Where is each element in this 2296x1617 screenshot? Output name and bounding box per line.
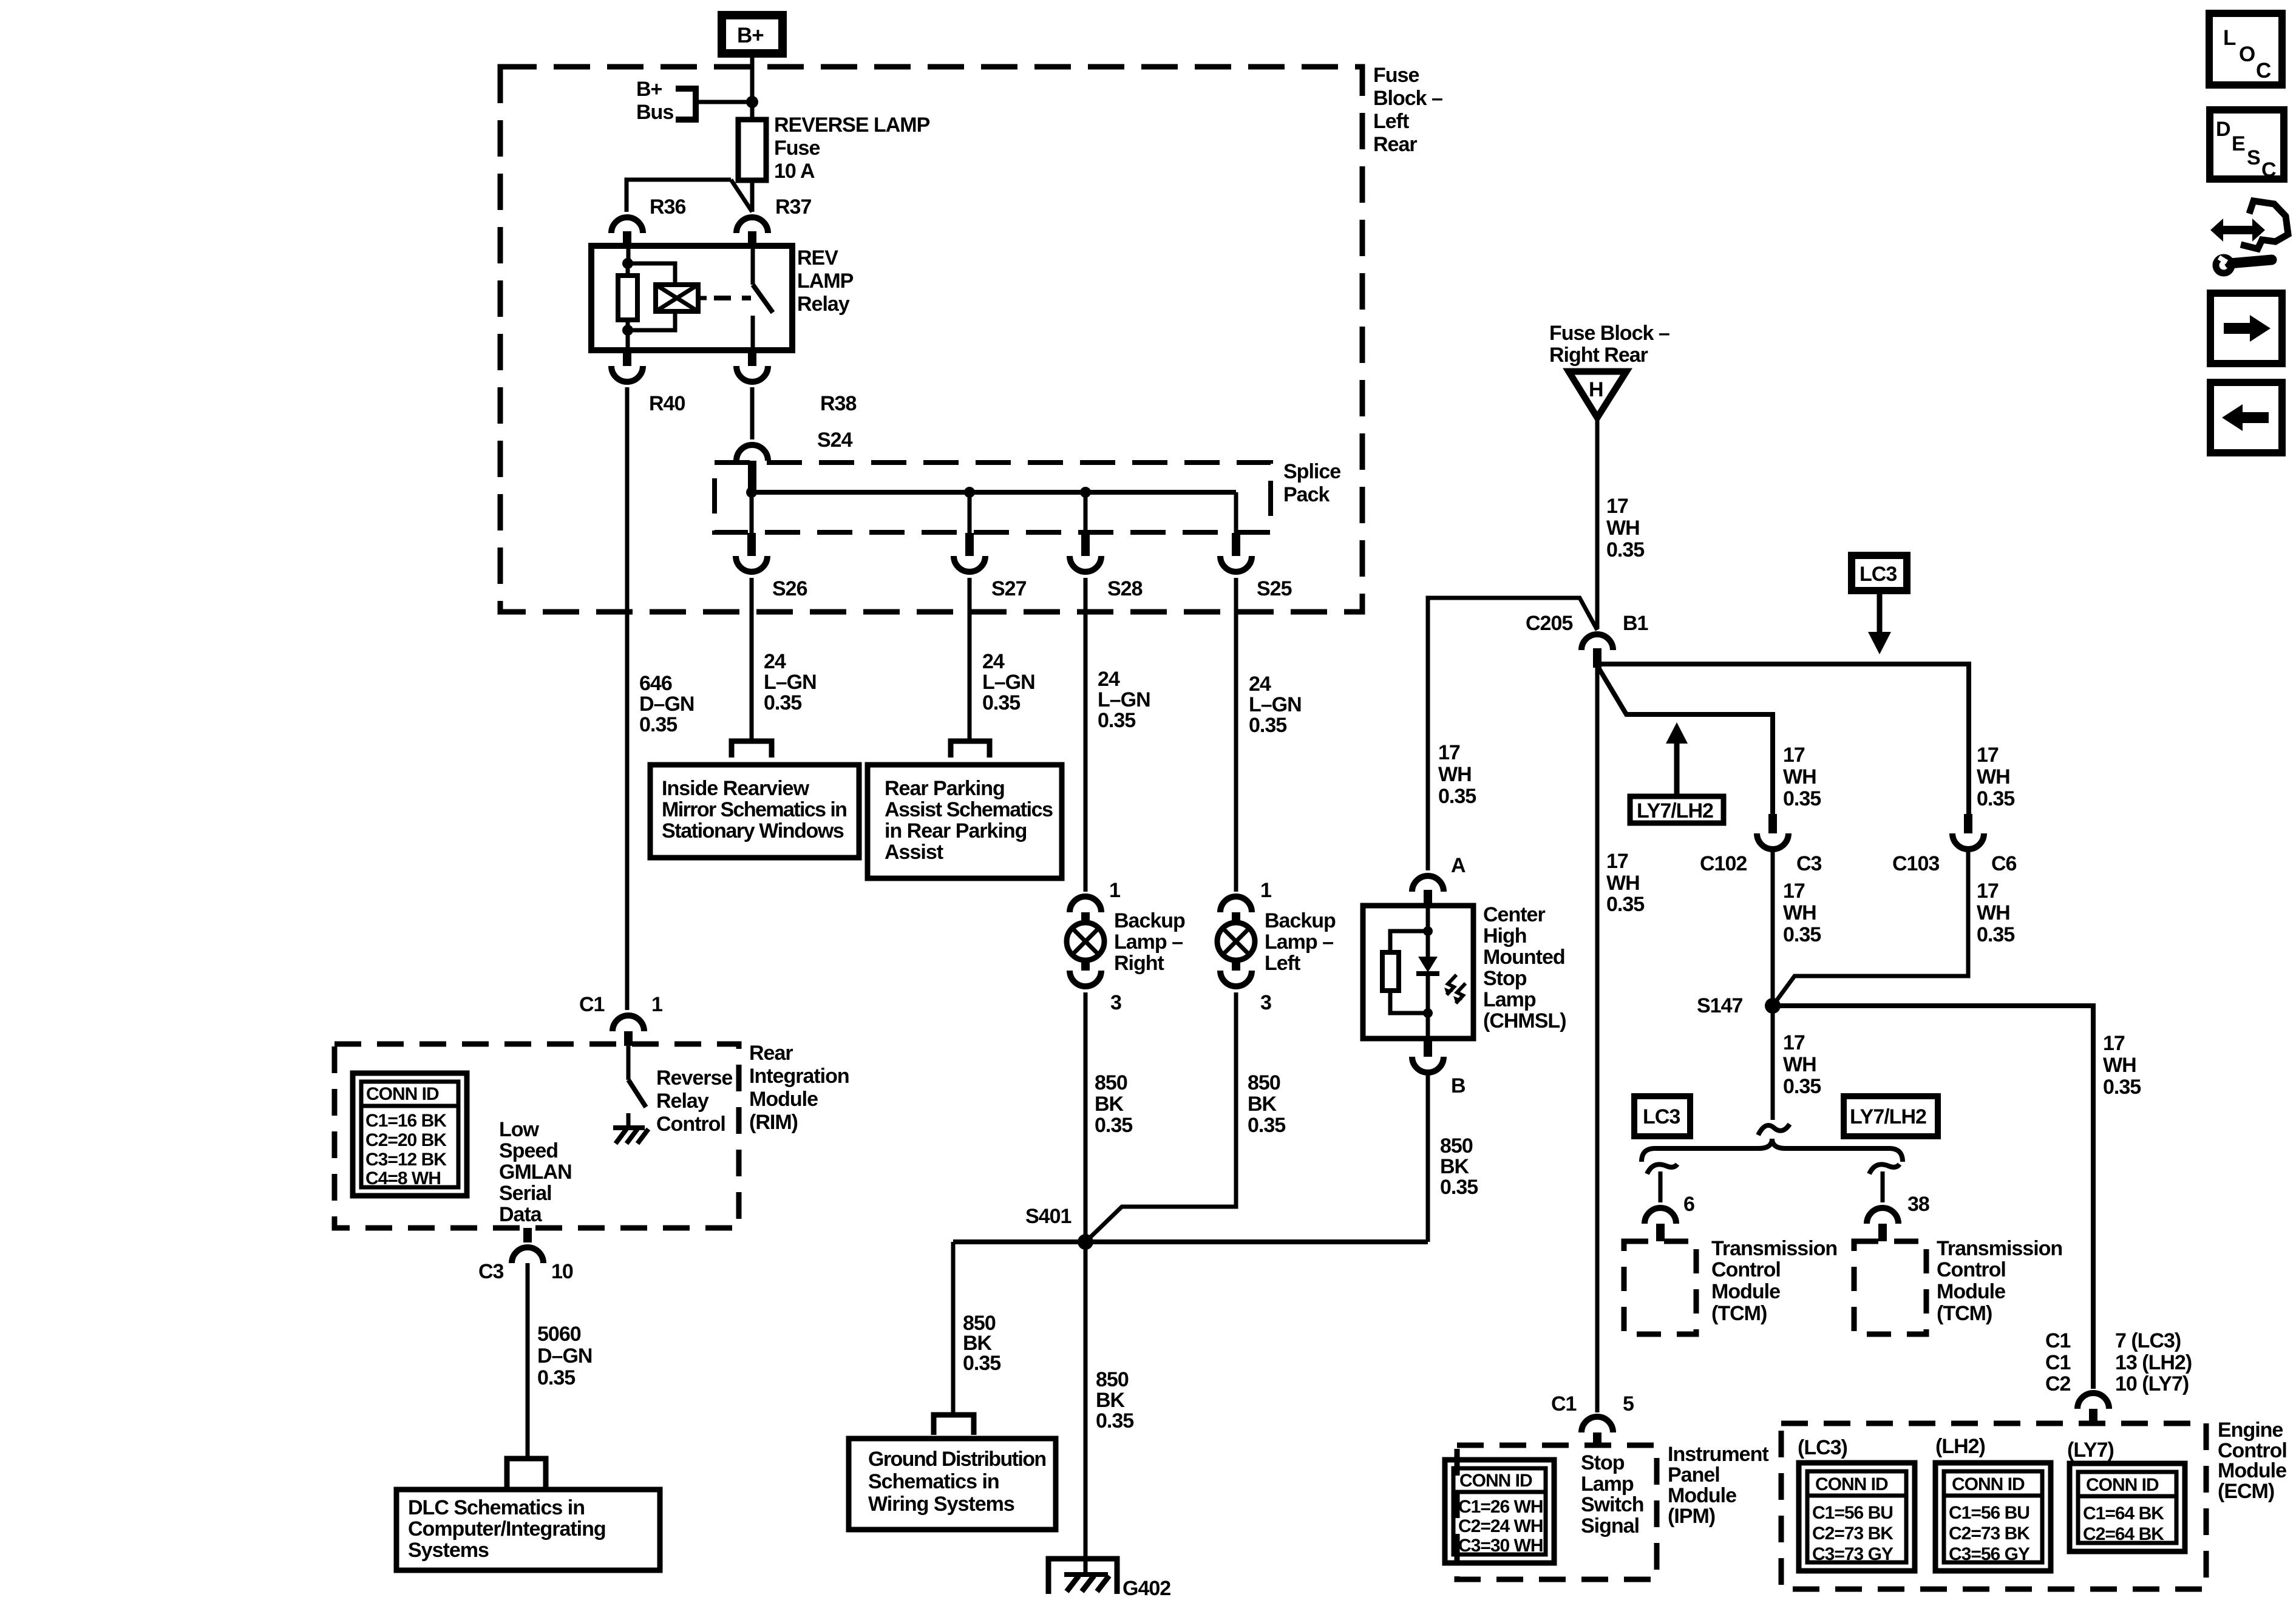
svg-text:Stationary Windows: Stationary Windows <box>662 819 844 842</box>
connector C3 RIM bottom <box>523 1228 532 1242</box>
svg-text:(LH2): (LH2) <box>1935 1435 1985 1458</box>
connector lamp left bottom <box>1232 959 1240 971</box>
svg-text:Stop: Stop <box>1483 967 1527 990</box>
label Engine Control Module (ECM) <box>2218 1419 2287 1503</box>
svg-text:R38: R38 <box>820 392 856 415</box>
svg-text:Assist: Assist <box>885 841 943 864</box>
label 17 WH 0.35 IPM wire <box>1606 850 1644 916</box>
svg-text:C1: C1 <box>2045 1351 2071 1374</box>
svg-text:(IPM): (IPM) <box>1668 1505 1715 1528</box>
dashed box Splice Pack <box>715 463 1271 532</box>
connector S27 <box>965 533 974 556</box>
terminal staple ground box <box>934 1415 974 1435</box>
svg-text:Stop: Stop <box>1581 1451 1625 1474</box>
svg-text:in Rear Parking: in Rear Parking <box>885 819 1027 842</box>
splice bus wire <box>752 490 1236 495</box>
svg-text:CONN ID: CONN ID <box>2086 1475 2159 1495</box>
svg-text:Right Rear: Right Rear <box>1549 344 1648 367</box>
connector S25 <box>1232 533 1240 556</box>
ground G402 <box>1048 1559 1117 1594</box>
svg-text:C4=8 WH: C4=8 WH <box>365 1168 441 1188</box>
svg-text:C1=56 BU: C1=56 BU <box>1812 1503 1893 1523</box>
svg-text:G402: G402 <box>1123 1577 1170 1600</box>
wire R38 down to S24 <box>750 387 755 439</box>
svg-text:WH: WH <box>1783 1053 1816 1076</box>
svg-text:C2: C2 <box>2045 1372 2071 1395</box>
wire CHMSL internal top <box>1426 906 1430 957</box>
svg-text:B+: B+ <box>737 24 764 47</box>
label 17 WH 0.35 C102 branch <box>1783 744 1821 810</box>
wire ground distribution branch <box>951 1242 956 1415</box>
wire break squiggle <box>1758 1124 1790 1135</box>
svg-text:C1=56 BU: C1=56 BU <box>1949 1503 2029 1523</box>
node S401 <box>1078 1234 1093 1250</box>
svg-text:BK: BK <box>1096 1389 1126 1412</box>
svg-text:S401: S401 <box>1025 1205 1071 1228</box>
svg-text:R37: R37 <box>775 195 811 219</box>
svg-text:S24: S24 <box>817 429 853 452</box>
wire branch to C102 <box>1598 668 1773 814</box>
dashed box Fuse Block - Left Rear <box>500 67 1362 612</box>
arrow LC3 down <box>1868 591 1891 654</box>
svg-text:R40: R40 <box>649 392 685 415</box>
connector lamp left top <box>1220 897 1252 912</box>
svg-text:0.35: 0.35 <box>1606 893 1644 916</box>
svg-text:5060: 5060 <box>537 1323 581 1346</box>
svg-text:LC3: LC3 <box>1860 563 1897 586</box>
label 850 BK 0.35 left lamp <box>1248 1071 1285 1137</box>
svg-text:13 (LH2): 13 (LH2) <box>2115 1351 2192 1374</box>
svg-text:Panel: Panel <box>1668 1463 1720 1486</box>
svg-text:17: 17 <box>1606 495 1628 518</box>
wire lamp right to S401 <box>1084 992 1088 1242</box>
label Stop Lamp Switch Signal <box>1581 1451 1644 1537</box>
svg-text:L–GN: L–GN <box>1098 688 1150 711</box>
wire H to C205 <box>1595 418 1600 629</box>
svg-text:Fuse: Fuse <box>1373 64 1419 87</box>
connector pin 6 <box>1645 1208 1676 1224</box>
svg-text:Computer/Integrating: Computer/Integrating <box>408 1517 606 1541</box>
ground internal RIM <box>613 1113 648 1144</box>
svg-text:Serial: Serial <box>499 1182 552 1205</box>
svg-text:S: S <box>2247 146 2260 169</box>
svg-text:Low: Low <box>499 1118 540 1141</box>
wire S26 drop <box>750 492 754 533</box>
svg-text:(ECM): (ECM) <box>2218 1480 2274 1503</box>
svg-text:D: D <box>2216 118 2230 141</box>
svg-text:L–GN: L–GN <box>1249 693 1302 716</box>
svg-text:Rear: Rear <box>749 1042 793 1065</box>
svg-text:C1: C1 <box>1551 1392 1577 1415</box>
svg-text:O: O <box>2239 42 2255 66</box>
svg-text:D–GN: D–GN <box>537 1344 592 1368</box>
label 24 L-GN 0.35 S27 <box>982 650 1035 714</box>
svg-text:Relay: Relay <box>797 293 850 316</box>
svg-text:REV: REV <box>797 246 838 269</box>
svg-text:Speed: Speed <box>499 1139 558 1162</box>
svg-text:C102: C102 <box>1700 852 1747 875</box>
svg-text:24: 24 <box>1098 668 1120 691</box>
wire branch to C103 <box>1597 664 1969 814</box>
conn id table RIM <box>353 1073 467 1196</box>
wire S27 drop <box>968 492 972 533</box>
label 850 BK 0.35 right lamp <box>1095 1071 1132 1137</box>
label 17 WH 0.35 below S147 <box>1783 1031 1821 1098</box>
svg-text:B1: B1 <box>1623 612 1648 635</box>
connector CHMSL A <box>1412 876 1444 892</box>
node S27 tap <box>964 487 975 498</box>
svg-text:17: 17 <box>1783 880 1805 903</box>
svg-text:Mirror Schematics in: Mirror Schematics in <box>662 798 846 821</box>
connector C103 C6 <box>1964 814 1972 833</box>
fuse REVERSE LAMP 10A <box>738 120 766 180</box>
svg-text:S28: S28 <box>1107 577 1143 600</box>
svg-text:Center: Center <box>1483 903 1545 926</box>
wire TCM branch 38 <box>1869 1164 1900 1202</box>
svg-text:Splice: Splice <box>1283 460 1340 483</box>
svg-text:Signal: Signal <box>1581 1514 1639 1537</box>
resistor branch CHMSL <box>1390 931 1428 952</box>
svg-text:C3=73 GY: C3=73 GY <box>1812 1544 1894 1564</box>
power feed box B+ <box>722 15 783 53</box>
svg-text:C: C <box>2261 158 2276 181</box>
svg-text:L–GN: L–GN <box>764 671 817 694</box>
svg-text:0.35: 0.35 <box>1096 1409 1133 1432</box>
box Inside Rearview Mirror Schematics <box>650 765 859 858</box>
terminal staple mirror box <box>732 741 772 758</box>
svg-text:C: C <box>2256 59 2271 83</box>
svg-text:850: 850 <box>1440 1134 1473 1158</box>
label Low Speed GMLAN Serial Data <box>499 1118 572 1226</box>
icon service tool <box>2210 201 2288 273</box>
label C1 C1 C2 stack <box>2045 1329 2071 1395</box>
svg-text:17: 17 <box>2103 1032 2125 1055</box>
connector CHMSL B <box>1424 1039 1432 1057</box>
label 17 WH 0.35 below C3 <box>1783 880 1821 946</box>
label Center High Mounted Stop Lamp (CHMSL) <box>1483 903 1566 1032</box>
label 850 BK 0.35 CHMSL <box>1440 1134 1478 1199</box>
svg-text:C3: C3 <box>478 1260 504 1283</box>
wire R40 down <box>625 387 630 1010</box>
svg-text:Systems: Systems <box>408 1539 489 1562</box>
wire node to resistor <box>626 263 630 276</box>
label 17 WH 0.35 below C6 <box>1977 880 2014 946</box>
label pins 7 13 10 <box>2115 1329 2192 1395</box>
svg-text:0.35: 0.35 <box>1977 923 2014 946</box>
svg-text:CONN ID: CONN ID <box>1459 1471 1532 1491</box>
svg-text:Module: Module <box>1937 1280 2005 1303</box>
svg-text:A: A <box>1451 854 1466 877</box>
wire node to relay pin R40 <box>626 330 630 350</box>
svg-text:WH: WH <box>1606 872 1640 895</box>
node <box>622 325 633 336</box>
wire lamp left to S401 <box>1085 992 1236 1242</box>
label LC3 flag box 2 <box>1634 1096 1690 1136</box>
svg-text:Data: Data <box>499 1203 543 1226</box>
connector ECM <box>2077 1393 2109 1409</box>
connector C1 RIM <box>613 1015 644 1031</box>
svg-text:6: 6 <box>1683 1193 1694 1216</box>
dashed box TCM left <box>1624 1241 1696 1334</box>
svg-text:Module: Module <box>1668 1484 1736 1507</box>
connector S26 <box>747 533 756 556</box>
backup lamp left bulb <box>1217 923 1255 960</box>
wire S28 drop <box>1084 492 1088 533</box>
svg-text:Integration: Integration <box>749 1065 849 1088</box>
wire S27 to park assist box <box>968 578 972 741</box>
connector C205 B1 <box>1581 634 1613 650</box>
wire S25 drop <box>1234 492 1238 533</box>
svg-text:Backup: Backup <box>1114 909 1185 932</box>
svg-text:1: 1 <box>651 993 662 1016</box>
connector IPM C1 5 <box>1581 1417 1613 1432</box>
connector pin 38 <box>1867 1208 1898 1224</box>
svg-text:17: 17 <box>1438 741 1460 764</box>
svg-text:0.35: 0.35 <box>1783 923 1821 946</box>
svg-text:WH: WH <box>2103 1054 2136 1077</box>
wire B+ Bus to main <box>696 100 752 104</box>
svg-text:Control: Control <box>656 1113 725 1136</box>
label Backup Lamp Left <box>1265 909 1336 975</box>
connector lamp right top <box>1070 897 1101 912</box>
svg-text:REVERSE LAMP: REVERSE LAMP <box>774 114 930 137</box>
svg-text:BK: BK <box>1248 1093 1277 1116</box>
wire CHMSL B to S401 <box>1426 1073 1430 1242</box>
wire S401 horizontal <box>953 1239 1428 1244</box>
svg-text:1: 1 <box>1260 879 1271 902</box>
svg-text:Transmission: Transmission <box>1711 1237 1837 1260</box>
svg-text:C3=12 BK: C3=12 BK <box>365 1150 447 1170</box>
svg-text:Lamp: Lamp <box>1483 988 1536 1011</box>
svg-text:C2=64 BK: C2=64 BK <box>2083 1524 2164 1544</box>
svg-text:LY7/LH2: LY7/LH2 <box>1637 799 1713 822</box>
connector S28 <box>1081 533 1090 556</box>
label LY7/LH2 flag box <box>1630 796 1724 823</box>
relay switch arm <box>753 285 773 313</box>
svg-text:R36: R36 <box>650 195 685 219</box>
svg-text:3: 3 <box>1260 991 1271 1014</box>
svg-text:L–GN: L–GN <box>982 671 1035 694</box>
box Rear Parking Assist Schematics <box>868 765 1062 878</box>
svg-text:17: 17 <box>1977 744 1999 767</box>
connector S24 <box>736 445 768 461</box>
label 17 WH 0.35 C103 branch <box>1977 744 2014 810</box>
svg-text:0.35: 0.35 <box>1095 1114 1132 1137</box>
icon arrow right box <box>2210 293 2282 364</box>
switch reverse relay control <box>627 1044 631 1080</box>
conn id table IPM <box>1445 1460 1554 1563</box>
box DLC Schematics <box>396 1490 660 1570</box>
dashed box TCM right <box>1854 1241 1926 1334</box>
svg-text:DLC Schematics in: DLC Schematics in <box>408 1496 585 1519</box>
wire C3 down to S147 <box>1771 849 1775 1006</box>
svg-text:850: 850 <box>1248 1071 1280 1094</box>
node S28 tap <box>1080 487 1091 498</box>
label Reverse Relay Control <box>656 1066 732 1136</box>
svg-text:0.35: 0.35 <box>1248 1114 1285 1137</box>
dashed box ECM <box>1781 1423 2206 1589</box>
label B+ Bus <box>636 78 673 124</box>
svg-text:0.35: 0.35 <box>537 1366 575 1389</box>
label 24 L-GN 0.35 S25 <box>1249 673 1302 737</box>
svg-text:0.35: 0.35 <box>1783 787 1821 810</box>
wire CHMSL tap <box>1428 598 1597 870</box>
svg-text:0.35: 0.35 <box>1440 1176 1478 1199</box>
svg-text:Assist Schematics: Assist Schematics <box>885 798 1053 821</box>
wire CHMSL internal bottom <box>1426 974 1430 1039</box>
conn id table LH2 <box>1935 1463 2051 1571</box>
label LY7/LH2 flag box 2 <box>1844 1096 1938 1136</box>
svg-text:10 A: 10 A <box>774 160 815 183</box>
relay switch bottom contact <box>751 316 755 350</box>
svg-text:Fuse Block –: Fuse Block – <box>1549 322 1669 345</box>
wire fork to R36 branch <box>627 180 731 212</box>
svg-text:WH: WH <box>1783 765 1816 788</box>
svg-text:10 (LY7): 10 (LY7) <box>2115 1372 2189 1395</box>
conn id table LY7 <box>2070 1463 2185 1551</box>
label Splice Pack <box>1283 460 1340 506</box>
wire S28 to backup lamp right <box>1084 578 1088 892</box>
connector R40 <box>623 350 631 366</box>
svg-text:Inside Rearview: Inside Rearview <box>662 777 810 800</box>
brace split <box>1642 1139 1903 1162</box>
wire TCM branch 6 <box>1647 1164 1677 1202</box>
svg-text:0.35: 0.35 <box>1098 709 1135 732</box>
wire top link to coil <box>628 263 675 285</box>
svg-text:(LY7): (LY7) <box>2067 1439 2114 1462</box>
svg-text:Right: Right <box>1114 952 1164 975</box>
node S147 <box>1765 998 1781 1014</box>
label Fuse Block - Left Rear <box>1373 64 1442 156</box>
label Rear Integration Module (RIM) <box>749 1042 849 1134</box>
svg-text:LAMP: LAMP <box>797 269 854 293</box>
dashed actuation link <box>714 296 751 300</box>
svg-text:24: 24 <box>982 650 1005 673</box>
svg-text:0.35: 0.35 <box>963 1352 1000 1375</box>
svg-text:WH: WH <box>1438 763 1472 786</box>
svg-text:S25: S25 <box>1257 577 1292 600</box>
svg-text:D–GN: D–GN <box>639 693 694 716</box>
svg-text:Fuse: Fuse <box>774 137 820 160</box>
relay coil box with X <box>656 285 707 311</box>
svg-text:C1=26 WH: C1=26 WH <box>1458 1497 1543 1517</box>
label LC3 flag box <box>1852 555 1907 591</box>
svg-text:S26: S26 <box>772 577 807 600</box>
diode LED CHMSL <box>1416 957 1466 1003</box>
svg-text:Relay: Relay <box>656 1090 709 1113</box>
svg-text:Engine: Engine <box>2218 1419 2283 1442</box>
node <box>1423 1008 1433 1018</box>
svg-text:CONN ID: CONN ID <box>366 1084 439 1104</box>
icon DESC box <box>2210 110 2284 181</box>
svg-text:0.35: 0.35 <box>2103 1076 2141 1099</box>
label 17 WH 0.35 ECM wire <box>2103 1032 2141 1099</box>
svg-text:10: 10 <box>551 1260 573 1283</box>
svg-text:Instrument: Instrument <box>1668 1443 1768 1466</box>
label Instrument Panel Module (IPM) <box>1668 1443 1768 1528</box>
svg-text:Rear Parking: Rear Parking <box>885 777 1005 800</box>
label 17 WH 0.35 H wire <box>1606 495 1644 561</box>
svg-text:Wiring Systems: Wiring Systems <box>868 1493 1014 1516</box>
svg-text:Module: Module <box>1711 1280 1780 1303</box>
connector R38 <box>748 350 756 366</box>
svg-text:Module: Module <box>2218 1459 2286 1482</box>
svg-text:S147: S147 <box>1697 994 1742 1017</box>
svg-text:0.35: 0.35 <box>1438 785 1476 808</box>
connector lamp right bottom <box>1081 959 1090 971</box>
svg-text:Pack: Pack <box>1283 483 1330 506</box>
svg-text:C2=20 BK: C2=20 BK <box>365 1130 447 1150</box>
wire 646 D-GN from R40 label <box>639 672 694 736</box>
label Backup Lamp Right <box>1114 909 1185 975</box>
junction node <box>746 96 758 108</box>
wire fuse to fork <box>750 180 755 212</box>
svg-text:Mounted: Mounted <box>1483 946 1565 969</box>
label Transmission Control Module (TCM) right <box>1937 1237 2062 1325</box>
node <box>1423 926 1433 936</box>
wire resistor to node <box>626 320 630 330</box>
resistor CHMSL <box>1382 952 1399 991</box>
svg-text:0.35: 0.35 <box>1606 538 1644 561</box>
label 24 L-GN 0.35 S28 <box>1098 668 1150 732</box>
svg-text:Transmission: Transmission <box>1937 1237 2062 1260</box>
wire from B+ down to fuse <box>750 58 755 120</box>
svg-text:Lamp –: Lamp – <box>1114 931 1183 954</box>
svg-text:3: 3 <box>1110 991 1121 1014</box>
svg-text:LY7/LH2: LY7/LH2 <box>1850 1105 1926 1128</box>
label 850 BK 0.35 G402 branch <box>1096 1368 1133 1432</box>
svg-text:C103: C103 <box>1892 852 1939 875</box>
svg-text:(LC3): (LC3) <box>1798 1436 1847 1459</box>
svg-text:WH: WH <box>1606 517 1640 540</box>
label 5060 D-GN 0.35 <box>537 1323 592 1389</box>
connector R37 <box>736 217 768 233</box>
resistor in relay <box>618 276 637 320</box>
wire S147 down to TCM split <box>1771 1006 1775 1120</box>
svg-text:C1=64 BK: C1=64 BK <box>2083 1503 2164 1524</box>
svg-text:C2=73 BK: C2=73 BK <box>1949 1524 2030 1544</box>
svg-text:0.35: 0.35 <box>639 713 677 736</box>
svg-text:High: High <box>1483 924 1527 947</box>
svg-text:H: H <box>1589 378 1603 401</box>
wire C6 down to S147 <box>1773 849 1968 1006</box>
label 850 BK 0.35 ground branch <box>963 1312 1000 1375</box>
svg-text:Control: Control <box>1937 1258 2006 1281</box>
svg-text:(TCM): (TCM) <box>1711 1302 1767 1325</box>
svg-text:S27: S27 <box>991 577 1027 600</box>
svg-text:24: 24 <box>764 650 786 673</box>
icon LOC box <box>2209 13 2282 85</box>
relay switch fixed top <box>751 246 755 285</box>
node <box>622 258 633 269</box>
svg-text:LC3: LC3 <box>1643 1105 1680 1128</box>
svg-text:646: 646 <box>639 672 672 695</box>
wire resistor to node <box>1390 991 1428 1013</box>
relay box REV LAMP Relay <box>591 246 792 350</box>
svg-text:7 (LC3): 7 (LC3) <box>2115 1329 2181 1352</box>
svg-text:C2=24 WH: C2=24 WH <box>1458 1516 1543 1536</box>
icon arrow left box <box>2210 382 2282 453</box>
label 17 WH 0.35 CHMSL wire <box>1438 741 1476 808</box>
svg-text:Backup: Backup <box>1265 909 1336 932</box>
svg-text:C3: C3 <box>1796 852 1822 875</box>
svg-text:Module: Module <box>749 1088 818 1111</box>
svg-text:17: 17 <box>1783 744 1805 767</box>
label REV LAMP Relay <box>797 246 854 316</box>
svg-text:Left: Left <box>1373 110 1409 133</box>
svg-text:B+: B+ <box>636 78 662 101</box>
svg-text:Schematics in: Schematics in <box>868 1470 999 1493</box>
